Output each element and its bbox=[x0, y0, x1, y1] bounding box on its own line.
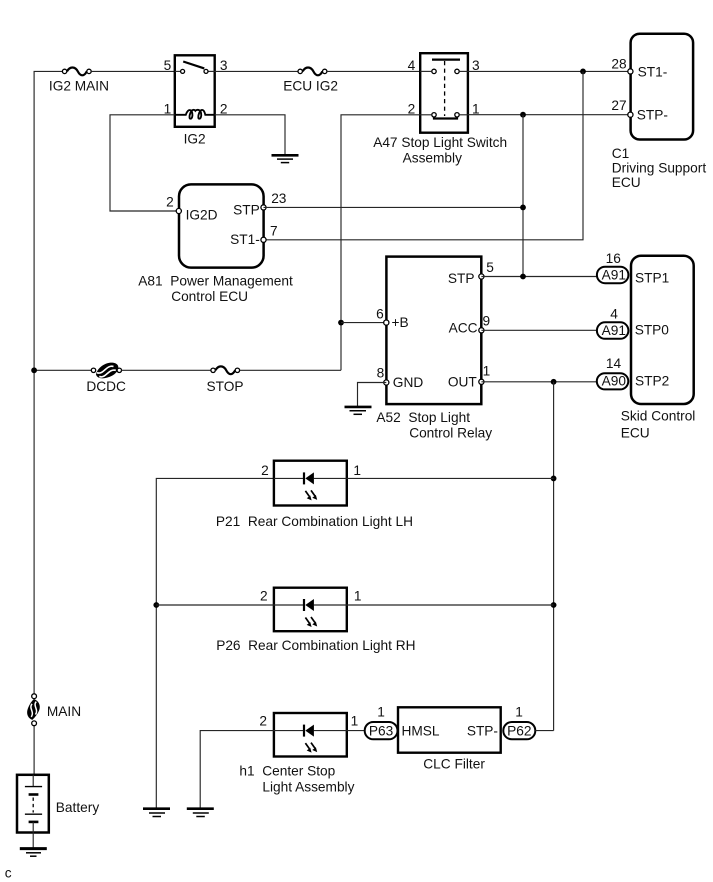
P21 LED arrows bbox=[305, 490, 317, 500]
junction P21 right bbox=[551, 476, 557, 482]
wire OUT rail down bbox=[553, 382, 555, 731]
svg-text:STP-: STP- bbox=[637, 108, 668, 123]
svg-text:h1 Center Stop: h1 Center Stop bbox=[239, 764, 335, 779]
wire fuse to relay IG2 pin 5 bbox=[91, 70, 175, 72]
svg-text:STOP: STOP bbox=[207, 379, 244, 394]
relay A52 Stop Light Control Relay bbox=[386, 257, 481, 405]
svg-text:7: 7 bbox=[270, 223, 278, 238]
svg-text:IG2 MAIN: IG2 MAIN bbox=[49, 79, 109, 94]
wire battery to ground bbox=[32, 833, 34, 849]
wire IG2 pin 1 to A81 pin 2 bbox=[110, 115, 179, 211]
junction STP node bbox=[520, 205, 526, 211]
svg-text:STP0: STP0 bbox=[635, 323, 670, 338]
svg-text:Control Relay: Control Relay bbox=[409, 426, 492, 441]
svg-text:DCDC: DCDC bbox=[86, 379, 126, 394]
svg-text:2: 2 bbox=[260, 588, 268, 603]
P26 LED triangle bbox=[305, 599, 314, 611]
battery plate long bbox=[25, 813, 42, 815]
svg-text:6: 6 bbox=[376, 307, 384, 322]
svg-text:A47 Stop Light Switch: A47 Stop Light Switch bbox=[373, 135, 507, 150]
battery dashed center bbox=[32, 798, 34, 813]
wire inside A47 top row bbox=[420, 70, 432, 72]
wire DCDC STOP feed bbox=[34, 369, 91, 371]
junction STP- node bbox=[520, 112, 526, 118]
svg-text:23: 23 bbox=[271, 191, 287, 206]
A52 pin 6 bbox=[384, 320, 389, 325]
wire A47 pin 3 to C1 pin 28 bbox=[468, 70, 631, 72]
svg-text:28: 28 bbox=[611, 56, 627, 71]
wire left rail bottom segment to battery bbox=[33, 724, 35, 777]
battery plate short thick bbox=[29, 821, 39, 824]
svg-text:5: 5 bbox=[486, 260, 494, 275]
P26 LED arrows bbox=[305, 617, 317, 627]
A47 plunger dashed line bbox=[444, 61, 446, 116]
svg-text:STP1: STP1 bbox=[635, 270, 669, 285]
svg-text:A91: A91 bbox=[602, 267, 626, 282]
svg-text:Light Assembly: Light Assembly bbox=[262, 779, 354, 794]
fusible link DCDC bbox=[91, 363, 121, 379]
svg-text:IG2: IG2 bbox=[184, 132, 206, 147]
A81 pin 2 bbox=[176, 208, 181, 213]
svg-text:4: 4 bbox=[610, 307, 618, 322]
wire A47 pin 1 to C1 pin 27 bbox=[468, 114, 631, 116]
svg-text:A52 Stop Light: A52 Stop Light bbox=[376, 410, 470, 425]
svg-text:27: 27 bbox=[611, 98, 626, 113]
relay IG2 switch blade bbox=[183, 62, 204, 69]
battery bbox=[17, 775, 49, 833]
svg-text:ECU IG2: ECU IG2 bbox=[283, 78, 338, 93]
svg-text:4: 4 bbox=[408, 58, 416, 73]
svg-text:A91: A91 bbox=[602, 323, 626, 338]
svg-text:STP: STP bbox=[448, 271, 475, 286]
svg-text:5: 5 bbox=[164, 58, 172, 73]
svg-text:Driving Support: Driving Support bbox=[612, 161, 707, 176]
lamp P26 Rear Combination Light RH bbox=[274, 588, 347, 632]
svg-text:C1: C1 bbox=[612, 146, 630, 161]
wire h1 to P63 bbox=[347, 730, 365, 732]
fuse ECU IG2 bbox=[298, 68, 327, 76]
wire h1 to ground bbox=[200, 731, 274, 808]
ground for h1 bbox=[187, 809, 214, 817]
ground for battery bbox=[20, 849, 47, 857]
ECU A81 Power Management Control ECU bbox=[179, 184, 264, 267]
svg-text:ACC: ACC bbox=[449, 320, 478, 335]
A47 contact pin 3 bbox=[455, 69, 459, 73]
ground for A52 bbox=[345, 407, 372, 414]
connector A90 STP2 bbox=[597, 373, 629, 389]
ground for lamp rail bbox=[143, 809, 170, 817]
svg-text:P62: P62 bbox=[507, 723, 531, 738]
wire left rail mid segment bbox=[33, 370, 35, 696]
svg-text:ECU: ECU bbox=[621, 425, 650, 440]
svg-text:OUT: OUT bbox=[448, 374, 478, 389]
battery plate short thick bbox=[29, 793, 39, 796]
svg-text:STP-: STP- bbox=[467, 723, 498, 738]
svg-text:STP: STP bbox=[233, 203, 260, 218]
wire P26 left bbox=[156, 604, 274, 606]
svg-text:P63: P63 bbox=[369, 723, 394, 738]
wire DCDC to STOP bbox=[122, 369, 211, 371]
wire +B branch bbox=[341, 322, 386, 324]
P21 LED triangle bbox=[305, 472, 314, 484]
svg-text:+B: +B bbox=[392, 315, 409, 330]
svg-text:1: 1 bbox=[515, 705, 523, 720]
wire A81 pin 23 to STP node bbox=[264, 206, 524, 208]
svg-text:1: 1 bbox=[377, 705, 385, 720]
wire left lamp rail bbox=[156, 478, 274, 808]
svg-text:A90: A90 bbox=[602, 373, 627, 388]
fuse STOP bbox=[211, 366, 240, 374]
svg-text:Battery: Battery bbox=[56, 800, 100, 815]
A47 common bar bbox=[432, 58, 460, 60]
wire IG2 pin 3 to ECU IG2 fuse bbox=[215, 70, 298, 72]
C1 pin 27 bbox=[628, 112, 633, 117]
connector P63 bbox=[365, 722, 398, 739]
switch A47 Stop Light Switch Assembly bbox=[420, 53, 468, 133]
relay IG2 contact pin 3 bbox=[204, 69, 208, 73]
svg-text:Skid Control: Skid Control bbox=[621, 408, 696, 423]
wire IG2 pin 2 to ground bbox=[215, 115, 285, 155]
svg-text:ECU: ECU bbox=[612, 175, 641, 190]
svg-text:P26 Rear Combination Light RH: P26 Rear Combination Light RH bbox=[216, 638, 415, 653]
filter CLC Filter bbox=[398, 707, 501, 752]
svg-text:IG2D: IG2D bbox=[186, 208, 218, 223]
junction OUT node bbox=[551, 379, 557, 385]
wire ECU IG2 fuse to A47 pin 4 bbox=[327, 70, 420, 72]
svg-text:16: 16 bbox=[606, 251, 622, 266]
svg-text:GND: GND bbox=[393, 375, 424, 390]
svg-text:Control ECU: Control ECU bbox=[171, 289, 248, 304]
junction ST1- node bbox=[580, 69, 586, 75]
wire junction down to STP node bbox=[522, 115, 524, 277]
fuse IG2 MAIN bbox=[62, 68, 91, 76]
svg-text:CLC Filter: CLC Filter bbox=[423, 757, 485, 772]
A81 pin 7 bbox=[261, 237, 266, 242]
C1 pin 28 bbox=[628, 69, 633, 74]
connector A91 STP1 bbox=[597, 267, 629, 284]
A47 contact pin 2 bbox=[432, 113, 436, 117]
relay IG2 coil bbox=[175, 110, 215, 119]
junction on left rail bbox=[31, 367, 37, 373]
A52 pin 5 bbox=[479, 274, 484, 279]
h1 LED triangle bbox=[305, 725, 314, 737]
A81 pin 23 bbox=[261, 205, 266, 210]
lamp P21 Rear Combination Light LH bbox=[274, 461, 347, 506]
h1 LED arrows bbox=[305, 743, 317, 753]
P21 LED cathode bar bbox=[303, 472, 305, 484]
junction STP node at A52 bbox=[520, 274, 526, 280]
connector P62 bbox=[503, 722, 535, 739]
svg-text:MAIN: MAIN bbox=[47, 704, 81, 719]
lamp h1 Center Stop Light Assembly bbox=[274, 713, 347, 757]
ECU C1 Driving Support ECU bbox=[631, 34, 694, 140]
wire A52 ACC to A91 bbox=[481, 329, 597, 331]
A52 pin 9 bbox=[479, 328, 484, 333]
h1 LED cathode bar bbox=[303, 725, 305, 737]
connector A91 STP0 bbox=[597, 322, 629, 339]
wire junction down to A81 pin 7 bbox=[263, 71, 583, 239]
ground for IG2 coil bbox=[272, 155, 299, 162]
A52 pin 1 bbox=[479, 379, 484, 384]
wire A52 OUT to A90 bbox=[481, 381, 597, 383]
P26 LED cathode bar bbox=[303, 599, 305, 611]
svg-text:14: 14 bbox=[606, 356, 622, 371]
svg-text:HMSL: HMSL bbox=[402, 723, 440, 738]
A52 pin 8 bbox=[384, 380, 389, 385]
svg-text:1: 1 bbox=[483, 364, 491, 379]
A47 bottom bracket bbox=[434, 117, 457, 119]
svg-text:ST1-: ST1- bbox=[638, 65, 668, 80]
wire left rail top segment bbox=[34, 71, 64, 370]
battery plate long bbox=[25, 786, 42, 788]
svg-text:Assembly: Assembly bbox=[403, 151, 462, 166]
fusible link MAIN bbox=[27, 694, 40, 726]
wire P62 to OUT rail bbox=[535, 730, 553, 732]
svg-text:1: 1 bbox=[353, 463, 361, 478]
relay IG2 bbox=[175, 55, 215, 127]
relay IG2 contact pin 5 bbox=[181, 69, 185, 73]
wire A47 pin 2 down to +B node bbox=[341, 115, 420, 370]
svg-text:ST1-: ST1- bbox=[230, 232, 260, 247]
svg-text:c: c bbox=[5, 866, 12, 881]
svg-text:A81 Power Management: A81 Power Management bbox=[138, 274, 293, 289]
svg-text:1: 1 bbox=[351, 714, 359, 729]
wire A52 GND to ground bbox=[358, 383, 387, 407]
svg-text:8: 8 bbox=[377, 366, 385, 381]
A47 contact pin 1 bbox=[455, 113, 459, 117]
wire STOP fuse to +B rail corner bbox=[240, 369, 341, 371]
wire P21 to OUT rail bbox=[347, 477, 554, 479]
wire A52 STP to A91 bbox=[481, 276, 597, 278]
svg-text:9: 9 bbox=[483, 313, 491, 328]
wire inside A47 bottom row bbox=[420, 114, 432, 116]
wire P26 to OUT rail bbox=[347, 604, 554, 606]
ECU Skid Control ECU bbox=[631, 256, 694, 404]
svg-text:P21 Rear Combination Light LH: P21 Rear Combination Light LH bbox=[216, 514, 413, 529]
svg-text:2: 2 bbox=[261, 463, 269, 478]
junction P26 left bbox=[153, 602, 159, 608]
junction +B node bbox=[338, 320, 344, 326]
svg-text:1: 1 bbox=[354, 588, 362, 603]
junction P26 right bbox=[551, 602, 557, 608]
svg-text:STP2: STP2 bbox=[635, 373, 669, 388]
svg-text:2: 2 bbox=[166, 194, 174, 209]
A47 contact pin 4 bbox=[432, 69, 436, 73]
svg-text:2: 2 bbox=[259, 714, 267, 729]
